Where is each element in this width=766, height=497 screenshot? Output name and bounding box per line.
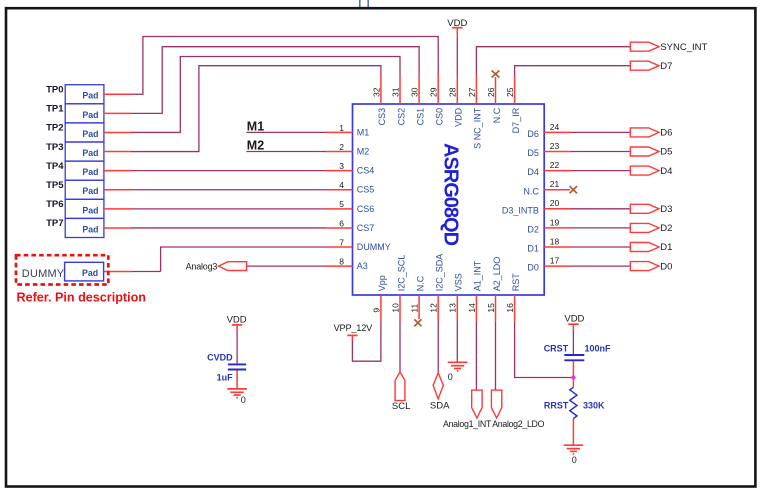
svg-text:CS4: CS4 [357, 166, 375, 176]
svg-text:TP1: TP1 [46, 104, 64, 115]
svg-text:A3: A3 [357, 261, 368, 271]
svg-text:25: 25 [505, 87, 515, 97]
svg-text:8: 8 [339, 257, 344, 267]
svg-text:21: 21 [550, 179, 560, 189]
svg-text:CS0: CS0 [435, 108, 445, 126]
svg-text:Analog3: Analog3 [186, 262, 218, 272]
svg-text:1: 1 [339, 123, 344, 133]
svg-text:Pad: Pad [82, 148, 98, 158]
svg-text:DUMMY: DUMMY [22, 268, 65, 280]
svg-text:7: 7 [339, 237, 344, 247]
svg-text:16: 16 [505, 303, 515, 313]
svg-text:Vpp: Vpp [377, 275, 387, 291]
svg-text:VDD: VDD [564, 313, 584, 324]
svg-text:CS2: CS2 [396, 108, 406, 126]
svg-text:22: 22 [550, 160, 560, 170]
svg-text:D4: D4 [660, 166, 672, 177]
svg-text:VDD: VDD [454, 107, 464, 127]
svg-text:S NC_INT: S NC_INT [473, 107, 483, 149]
svg-text:11: 11 [410, 304, 420, 313]
svg-text:Pad: Pad [82, 129, 98, 139]
svg-text:M1: M1 [357, 127, 370, 137]
svg-text:I2C_SCL: I2C_SCL [396, 255, 406, 292]
svg-text:Pad: Pad [82, 167, 98, 177]
svg-text:D3_INTB: D3_INTB [502, 205, 539, 215]
svg-text:0: 0 [448, 372, 453, 382]
svg-text:0: 0 [241, 395, 246, 405]
svg-text:D1: D1 [660, 242, 672, 253]
svg-text:20: 20 [550, 198, 560, 208]
svg-text:CVDD: CVDD [207, 353, 233, 363]
svg-text:14: 14 [467, 303, 477, 313]
svg-text:TP5: TP5 [46, 180, 64, 191]
svg-text:Refer. Pin description: Refer. Pin description [17, 291, 146, 305]
svg-text:26: 26 [486, 87, 496, 97]
svg-text:27: 27 [467, 87, 477, 97]
svg-text:TP3: TP3 [46, 142, 63, 153]
svg-text:N.C: N.C [523, 186, 539, 196]
svg-text:TP7: TP7 [46, 218, 63, 229]
svg-text:D6: D6 [660, 128, 672, 139]
svg-text:31: 31 [390, 87, 400, 97]
svg-text:TP0: TP0 [46, 85, 63, 96]
svg-text:RST: RST [511, 273, 521, 292]
svg-text:D6: D6 [527, 129, 539, 139]
svg-text:12: 12 [429, 303, 439, 313]
svg-text:TP6: TP6 [46, 199, 63, 210]
svg-text:D3: D3 [660, 204, 672, 215]
svg-text:D0: D0 [660, 261, 672, 272]
svg-text:SYNC_INT: SYNC_INT [660, 42, 707, 53]
svg-text:D4: D4 [527, 167, 539, 177]
svg-text:4: 4 [339, 180, 344, 190]
svg-text:CS6: CS6 [357, 204, 375, 214]
svg-text:30: 30 [410, 87, 420, 97]
svg-text:D7: D7 [660, 61, 672, 72]
svg-text:D7_IR: D7_IR [511, 107, 521, 133]
svg-text:VDD: VDD [227, 315, 247, 326]
svg-text:24: 24 [550, 122, 560, 132]
svg-text:VPP_12V: VPP_12V [334, 323, 374, 333]
svg-text:VDD: VDD [447, 18, 467, 29]
svg-text:3: 3 [339, 161, 344, 171]
svg-text:13: 13 [448, 303, 458, 313]
svg-text:CS3: CS3 [377, 108, 387, 126]
svg-text:Pad: Pad [82, 110, 98, 120]
svg-text:Analog2_LDO: Analog2_LDO [492, 419, 544, 429]
svg-text:VSS: VSS [454, 273, 464, 291]
svg-text:Pad: Pad [82, 268, 98, 278]
svg-text:DUMMY: DUMMY [357, 242, 391, 252]
svg-text:D2: D2 [660, 223, 672, 234]
svg-text:TP2: TP2 [46, 123, 63, 134]
svg-text:D0: D0 [527, 263, 539, 273]
svg-text:N.C: N.C [492, 107, 502, 123]
svg-text:RRST: RRST [544, 400, 569, 410]
svg-text:D1: D1 [527, 244, 539, 254]
svg-text:29: 29 [429, 87, 439, 97]
svg-text:CRST: CRST [544, 343, 569, 353]
svg-text:SCL: SCL [392, 401, 410, 412]
svg-text:D2: D2 [527, 225, 539, 235]
svg-text:SDA: SDA [430, 401, 450, 412]
svg-text:10: 10 [390, 303, 400, 313]
svg-text:Pad: Pad [82, 205, 98, 215]
svg-text:D5: D5 [660, 147, 672, 158]
svg-text:17: 17 [550, 256, 560, 266]
svg-text:M2: M2 [247, 139, 264, 153]
svg-text:Pad: Pad [82, 91, 98, 101]
svg-text:Pad: Pad [82, 224, 98, 234]
svg-text:Analog1_INT: Analog1_INT [443, 419, 492, 429]
svg-text:6: 6 [339, 218, 344, 228]
svg-text:0: 0 [572, 455, 577, 465]
svg-text:15: 15 [486, 303, 496, 313]
svg-text:CS1: CS1 [415, 108, 425, 126]
svg-text:N.C: N.C [415, 275, 425, 291]
svg-text:I2C_SDA: I2C_SDA [435, 254, 445, 292]
svg-text:CS7: CS7 [357, 223, 375, 233]
svg-text:A2_LDO: A2_LDO [492, 257, 502, 292]
svg-text:CS5: CS5 [357, 185, 375, 195]
svg-text:28: 28 [448, 87, 458, 97]
svg-text:23: 23 [550, 141, 560, 151]
svg-text:18: 18 [550, 236, 560, 246]
svg-text:Pad: Pad [82, 186, 98, 196]
svg-text:32: 32 [371, 87, 381, 97]
svg-text:5: 5 [339, 199, 344, 209]
svg-text:D5: D5 [527, 148, 539, 158]
svg-text:A1_INT: A1_INT [473, 260, 483, 291]
svg-text:19: 19 [550, 217, 560, 227]
svg-text:100nF: 100nF [585, 343, 612, 353]
svg-text:M1: M1 [247, 119, 264, 133]
svg-text:330K: 330K [583, 400, 605, 410]
svg-text:9: 9 [371, 308, 381, 313]
svg-text:ASRG08QD: ASRG08QD [439, 143, 461, 246]
svg-text:M2: M2 [357, 147, 370, 157]
svg-text:1uF: 1uF [217, 372, 234, 382]
svg-text:TP4: TP4 [46, 161, 64, 172]
svg-text:2: 2 [339, 142, 344, 152]
